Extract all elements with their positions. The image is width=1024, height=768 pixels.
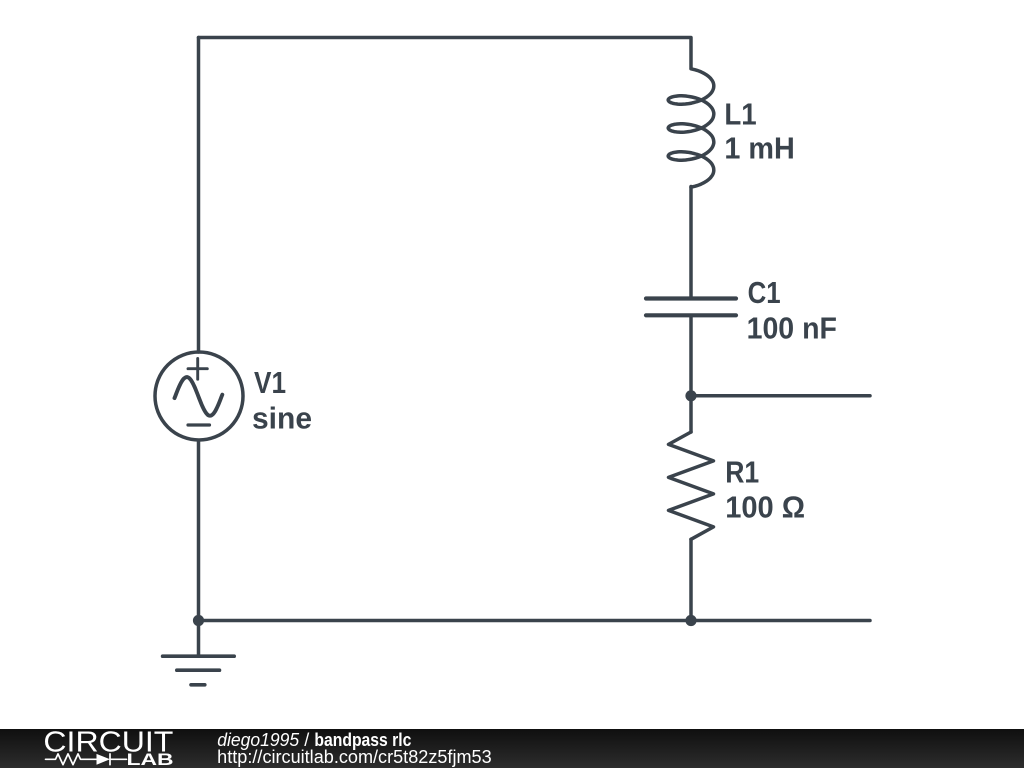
svg-text:L1: L1 bbox=[724, 97, 756, 131]
svg-text:C1: C1 bbox=[748, 276, 781, 310]
svg-text:100 nF: 100 nF bbox=[747, 312, 837, 346]
svg-text:LAB: LAB bbox=[127, 750, 174, 768]
svg-text:100 Ω: 100 Ω bbox=[725, 490, 805, 524]
svg-text:R1: R1 bbox=[725, 455, 759, 489]
svg-text:1 mH: 1 mH bbox=[724, 132, 794, 166]
svg-text:http://circuitlab.com/cr5t82z5: http://circuitlab.com/cr5t82z5fjm53 bbox=[217, 747, 492, 767]
svg-text:sine: sine bbox=[252, 401, 312, 435]
svg-text:V1: V1 bbox=[254, 366, 286, 400]
